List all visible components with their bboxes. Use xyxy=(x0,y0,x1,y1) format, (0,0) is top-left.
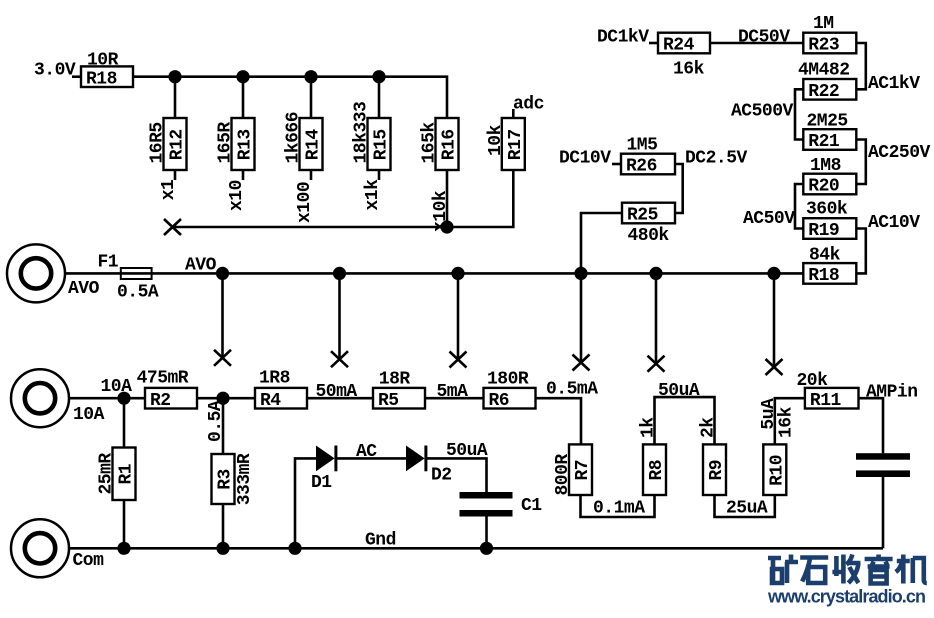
svg-text:R12: R12 xyxy=(168,129,188,160)
svg-text:DC1kV: DC1kV xyxy=(597,28,649,48)
svg-text:DC50V: DC50V xyxy=(738,28,790,48)
svg-text:R13: R13 xyxy=(236,129,256,160)
svg-text:AC10V: AC10V xyxy=(868,213,920,233)
svg-text:F1: F1 xyxy=(98,253,119,273)
svg-text:16k: 16k xyxy=(776,406,796,438)
svg-text:84k: 84k xyxy=(809,246,841,266)
svg-text:2M25: 2M25 xyxy=(807,112,848,132)
svg-text:AC500V: AC500V xyxy=(731,102,794,122)
svg-text:0.1mA: 0.1mA xyxy=(593,499,645,519)
svg-text:25mR: 25mR xyxy=(97,453,117,495)
svg-text:AVO: AVO xyxy=(68,279,100,299)
svg-text:R5: R5 xyxy=(378,391,399,411)
svg-text:50uA: 50uA xyxy=(446,441,488,461)
svg-text:2k: 2k xyxy=(699,417,719,438)
svg-text:0.5A: 0.5A xyxy=(117,283,159,303)
svg-text:18R: 18R xyxy=(379,370,411,390)
svg-text:16k: 16k xyxy=(673,60,705,80)
svg-text:480k: 480k xyxy=(628,226,670,246)
svg-text:D1: D1 xyxy=(311,473,332,493)
svg-text:R19: R19 xyxy=(808,221,839,241)
svg-text:10k: 10k xyxy=(486,124,506,156)
svg-text:R6: R6 xyxy=(489,391,510,411)
svg-text:800R: 800R xyxy=(553,454,573,496)
svg-text:AMPin: AMPin xyxy=(866,383,918,403)
svg-text:0.5mA: 0.5mA xyxy=(546,380,598,400)
svg-text:180R: 180R xyxy=(487,370,529,390)
svg-text:165R: 165R xyxy=(216,122,236,164)
svg-text:R18: R18 xyxy=(808,266,839,286)
svg-text:R17: R17 xyxy=(506,129,526,160)
svg-text:AC1kV: AC1kV xyxy=(868,74,920,94)
svg-text:Gnd: Gnd xyxy=(365,531,396,551)
svg-text:50mA: 50mA xyxy=(316,382,358,402)
svg-text:10R: 10R xyxy=(87,51,119,71)
svg-text:R24: R24 xyxy=(663,36,695,56)
svg-text:AVO: AVO xyxy=(185,256,217,276)
svg-text:R8: R8 xyxy=(647,460,667,481)
svg-text:R9: R9 xyxy=(707,460,727,481)
svg-text:1k666: 1k666 xyxy=(284,112,304,164)
svg-text:AC: AC xyxy=(356,442,377,462)
svg-text:x10: x10 xyxy=(227,180,247,211)
svg-text:R2: R2 xyxy=(150,391,171,411)
svg-text:R14: R14 xyxy=(304,129,324,161)
svg-text:4M482: 4M482 xyxy=(798,61,850,81)
svg-text:0.5A: 0.5A xyxy=(206,400,226,442)
svg-text:DC2.5V: DC2.5V xyxy=(685,149,748,169)
svg-text:R22: R22 xyxy=(808,82,839,102)
svg-text:R4: R4 xyxy=(260,391,281,411)
svg-text:C1: C1 xyxy=(521,496,542,516)
svg-text:20k: 20k xyxy=(797,371,829,391)
svg-text:www.crystalradio.cn: www.crystalradio.cn xyxy=(767,587,926,607)
svg-text:R23: R23 xyxy=(808,36,839,56)
svg-text:R15: R15 xyxy=(372,129,392,160)
svg-text:50uA: 50uA xyxy=(658,381,700,401)
svg-text:3.0V: 3.0V xyxy=(34,61,76,81)
svg-text:AC250V: AC250V xyxy=(868,143,931,163)
svg-text:R7: R7 xyxy=(573,460,593,481)
svg-text:DC10V: DC10V xyxy=(559,149,611,169)
svg-text:1R8: 1R8 xyxy=(259,369,290,389)
svg-text:R25: R25 xyxy=(627,206,658,226)
svg-text:R11: R11 xyxy=(810,391,842,411)
svg-text:D2: D2 xyxy=(431,466,452,486)
svg-text:1k: 1k xyxy=(639,417,659,438)
svg-text:R3: R3 xyxy=(216,469,236,490)
svg-text:165k: 165k xyxy=(420,122,440,164)
svg-text:Com: Com xyxy=(73,551,105,571)
svg-text:1M8: 1M8 xyxy=(810,156,841,176)
svg-text:adc: adc xyxy=(513,95,544,115)
svg-text:x10k: x10k xyxy=(431,190,451,232)
svg-text:R20: R20 xyxy=(808,177,839,197)
svg-text:1M: 1M xyxy=(813,14,834,34)
svg-text:5mA: 5mA xyxy=(437,382,469,402)
svg-text:R18: R18 xyxy=(86,69,117,89)
svg-text:x100: x100 xyxy=(295,182,315,223)
svg-text:R1: R1 xyxy=(117,463,137,484)
svg-text:R21: R21 xyxy=(808,132,840,152)
svg-text:x1k: x1k xyxy=(363,179,383,211)
svg-text:10A: 10A xyxy=(101,377,133,397)
svg-text:18k333: 18k333 xyxy=(352,102,372,164)
svg-text:10A: 10A xyxy=(73,405,105,425)
svg-text:AC50V: AC50V xyxy=(743,209,795,229)
svg-text:x1: x1 xyxy=(159,179,179,200)
svg-text:R16: R16 xyxy=(440,129,460,160)
svg-text:475mR: 475mR xyxy=(137,369,189,389)
svg-text:16R5: 16R5 xyxy=(148,122,168,163)
svg-text:333mR: 333mR xyxy=(235,453,255,505)
svg-text:1M5: 1M5 xyxy=(627,136,658,156)
svg-text:R10: R10 xyxy=(767,455,787,486)
svg-text:25uA: 25uA xyxy=(726,499,768,519)
svg-text:360k: 360k xyxy=(806,200,848,220)
svg-text:R26: R26 xyxy=(626,157,657,177)
